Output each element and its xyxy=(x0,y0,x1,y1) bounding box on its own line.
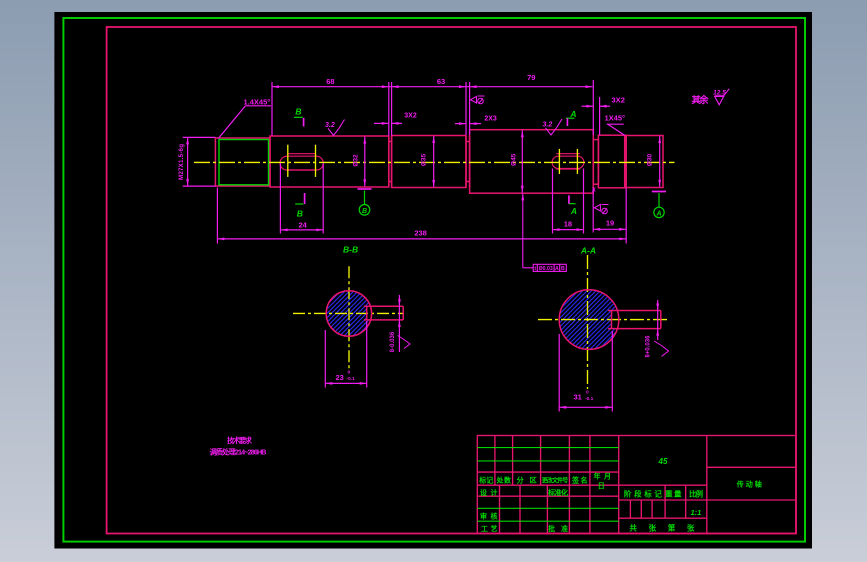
svg-text:A: A xyxy=(570,206,577,216)
svg-text:标准化: 标准化 xyxy=(547,488,568,497)
svg-text:B: B xyxy=(295,106,301,116)
svg-text:31: 31 xyxy=(574,393,582,402)
svg-text:3.2: 3.2 xyxy=(543,122,553,129)
svg-text:3X2: 3X2 xyxy=(612,95,625,104)
svg-text:Ø32: Ø32 xyxy=(353,154,360,167)
svg-text:签 名: 签 名 xyxy=(571,476,588,485)
svg-text:A: A xyxy=(569,109,576,119)
svg-text:238: 238 xyxy=(414,228,427,237)
svg-text:Ø0.03: Ø0.03 xyxy=(539,266,553,272)
svg-text:Ø35: Ø35 xyxy=(421,153,428,166)
svg-text:3.2: 3.2 xyxy=(325,122,335,129)
svg-text:更改文件号: 更改文件号 xyxy=(542,477,569,485)
svg-text:23: 23 xyxy=(336,373,344,382)
svg-text:0: 0 xyxy=(586,390,589,396)
svg-text:-0.1: -0.1 xyxy=(585,396,594,402)
svg-text:79: 79 xyxy=(527,73,535,82)
svg-text:分 区: 分 区 xyxy=(517,476,537,485)
svg-text:68: 68 xyxy=(326,77,334,86)
svg-text:19: 19 xyxy=(606,218,614,227)
svg-text:A: A xyxy=(555,266,559,272)
svg-text:B: B xyxy=(297,208,303,218)
svg-text:0: 0 xyxy=(348,370,351,376)
svg-text:传动轴: 传动轴 xyxy=(736,479,762,488)
svg-text:处数: 处数 xyxy=(496,476,513,485)
svg-text:M27X1.5-6g: M27X1.5-6g xyxy=(178,144,185,180)
svg-text:标记: 标记 xyxy=(478,476,493,485)
svg-text:技术要求: 技术要求 xyxy=(227,436,253,445)
svg-text:A: A xyxy=(655,210,661,217)
svg-text:B: B xyxy=(561,266,565,272)
svg-text:其余: 其余 xyxy=(692,94,710,105)
svg-text:2X3: 2X3 xyxy=(484,115,497,122)
svg-text:1.4X45°: 1.4X45° xyxy=(244,98,271,107)
svg-text:18: 18 xyxy=(564,220,572,229)
svg-text:设 计: 设 计 xyxy=(480,488,498,497)
svg-text:B: B xyxy=(362,208,367,215)
svg-text:Ø30: Ø30 xyxy=(647,153,654,166)
svg-text:45: 45 xyxy=(658,457,668,466)
svg-text:3X2: 3X2 xyxy=(404,113,417,120)
svg-text:重量: 重量 xyxy=(665,489,682,499)
svg-text:8-0.036: 8-0.036 xyxy=(390,331,396,352)
svg-text:A-A: A-A xyxy=(580,246,596,256)
svg-text:年 月: 年 月 xyxy=(594,472,612,481)
svg-text:审 核: 审 核 xyxy=(480,511,498,520)
svg-text:1X45°: 1X45° xyxy=(605,114,626,123)
svg-text:批 准: 批 准 xyxy=(548,524,568,533)
svg-text:-0.1: -0.1 xyxy=(347,376,356,382)
svg-text:8+0.036: 8+0.036 xyxy=(646,335,652,358)
svg-text:24: 24 xyxy=(299,220,308,229)
svg-text:63: 63 xyxy=(437,77,445,86)
svg-text:x: x xyxy=(592,187,596,194)
svg-text:日: 日 xyxy=(598,482,605,490)
svg-text:12.5: 12.5 xyxy=(713,89,726,96)
svg-text:Ø45: Ø45 xyxy=(511,153,518,166)
svg-text:1:1: 1:1 xyxy=(690,508,701,517)
svg-text:t: t xyxy=(534,266,536,272)
svg-text:调质处理214~286HB: 调质处理214~286HB xyxy=(210,447,267,456)
svg-text:B-B: B-B xyxy=(343,244,358,254)
svg-text:工 艺: 工 艺 xyxy=(481,524,498,533)
svg-text:比例: 比例 xyxy=(689,489,704,499)
